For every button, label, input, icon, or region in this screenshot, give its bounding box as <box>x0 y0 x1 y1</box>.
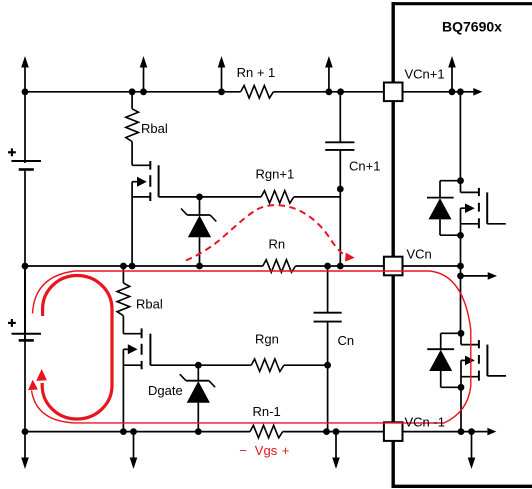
svg-text:Rgn+1: Rgn+1 <box>256 167 295 182</box>
svg-text:Rn + 1: Rn + 1 <box>237 65 276 80</box>
svg-text:Rgn: Rgn <box>255 332 279 347</box>
svg-text:VCn+1: VCn+1 <box>405 67 445 82</box>
svg-text:Rn-1: Rn-1 <box>253 404 281 419</box>
svg-text:Vgs: Vgs <box>255 443 278 458</box>
svg-text:VCn -1: VCn -1 <box>405 415 445 430</box>
svg-text:Dgate: Dgate <box>148 383 183 398</box>
svg-text:−: − <box>239 443 247 458</box>
svg-text:VCn: VCn <box>407 246 432 261</box>
svg-text:+: + <box>282 443 290 458</box>
svg-text:BQ7690x: BQ7690x <box>442 19 502 35</box>
svg-text:Cn: Cn <box>338 333 355 348</box>
svg-text:Cn+1: Cn+1 <box>349 159 380 174</box>
svg-text:Rbal: Rbal <box>141 121 168 136</box>
svg-text:Rn: Rn <box>269 237 286 252</box>
svg-text:Rbal: Rbal <box>136 297 163 312</box>
